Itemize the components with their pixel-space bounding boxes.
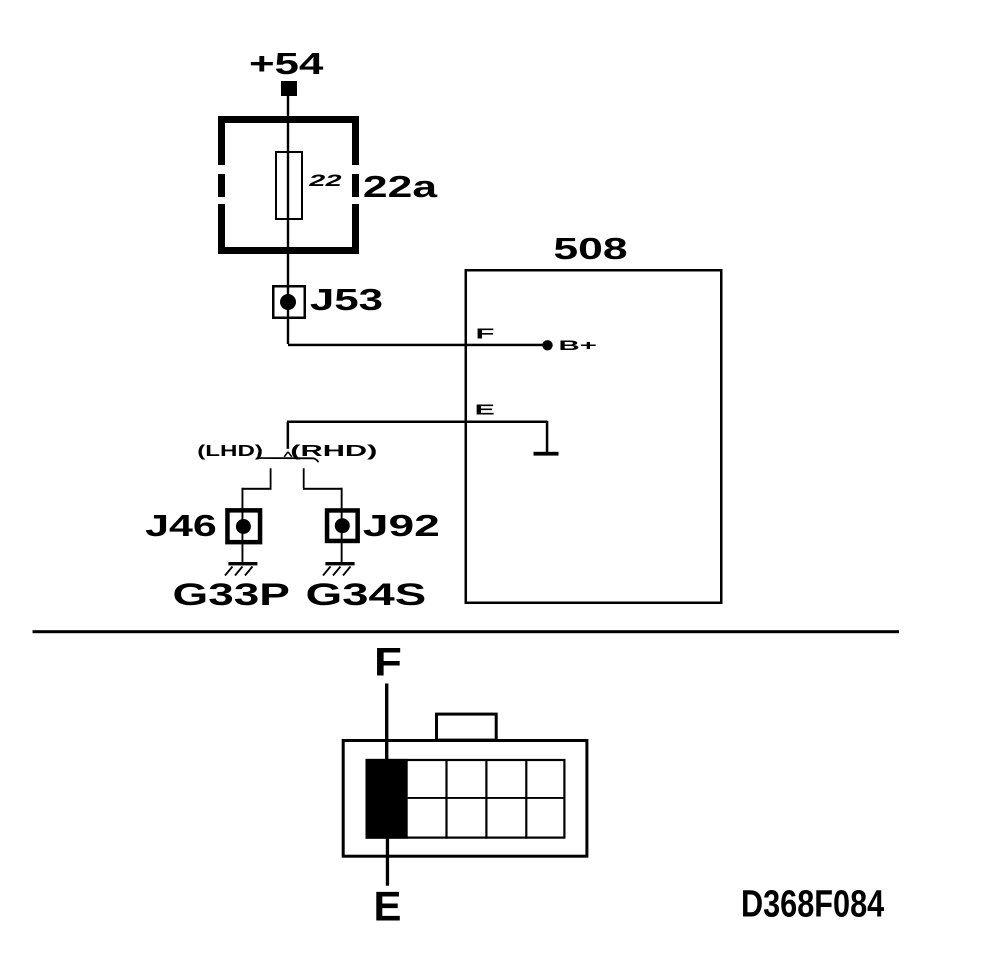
svg-text:G33P: G33P	[173, 577, 290, 612]
svg-text:(LHD): (LHD)	[197, 443, 263, 460]
svg-text:G34S: G34S	[306, 577, 427, 612]
svg-text:E: E	[475, 402, 495, 418]
svg-text:J46: J46	[145, 508, 217, 542]
svg-text:+54: +54	[249, 47, 323, 81]
svg-text:D368F084: D368F084	[741, 883, 885, 925]
svg-text:508: 508	[553, 232, 627, 266]
svg-text:22: 22	[307, 172, 344, 190]
svg-text:J92: J92	[363, 510, 440, 543]
svg-text:(RHD): (RHD)	[290, 443, 377, 460]
svg-text:E: E	[373, 883, 401, 930]
svg-text:F: F	[476, 326, 495, 342]
svg-text:22a: 22a	[363, 171, 438, 205]
svg-text:F: F	[374, 640, 402, 685]
svg-text:J53: J53	[310, 283, 383, 317]
svg-text:B+: B+	[559, 337, 597, 353]
